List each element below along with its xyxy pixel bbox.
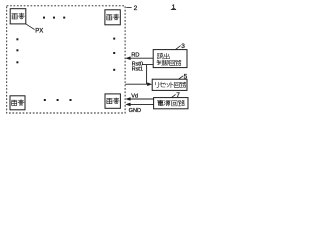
pixel array dashed box (2) — [7, 6, 125, 113]
ellipsis dots right column — [113, 38, 115, 40]
PX leader line — [26, 24, 35, 30]
RD wire — [129, 57, 154, 59]
svg-text:RD: RD — [131, 53, 139, 59]
svg-text:2: 2 — [134, 5, 138, 12]
reset line wire to pixel array — [125, 83, 149, 85]
Rst stub wire from box 3 — [142, 65, 153, 85]
GND wire — [129, 103, 154, 105]
pixel bottom-right 画素 box — [105, 94, 120, 108]
GND arrowhead — [125, 103, 130, 107]
pixel bottom-left 画素 box — [10, 96, 25, 110]
pixel top-right 画素 box — [105, 10, 120, 25]
ellipsis dots left column — [16, 38, 18, 40]
ellipsis dots bottom row — [44, 99, 46, 101]
leader for 7 — [172, 94, 176, 97]
power supply circuit box 7 電源回路 — [154, 98, 188, 109]
svg-text:PX: PX — [35, 29, 43, 35]
leader tick for 2 — [126, 7, 131, 9]
svg-text:Rst1: Rst1 — [132, 67, 143, 73]
leader for 5 — [179, 76, 183, 79]
pixel PX top-left 画素 box — [10, 9, 26, 24]
svg-text:GND: GND — [129, 108, 141, 114]
svg-text:3: 3 — [181, 43, 185, 50]
readout control circuit box 3 読出制御回路 — [153, 50, 187, 68]
ellipsis dots top row — [43, 17, 45, 19]
Vd wire — [129, 98, 154, 100]
svg-text:Vd: Vd — [131, 93, 138, 99]
RD arrowhead — [125, 56, 130, 60]
svg-text:5: 5 — [184, 73, 188, 80]
arrowhead into reset circuit — [147, 82, 152, 86]
Vd arrowhead — [125, 97, 130, 101]
svg-text:7: 7 — [176, 92, 180, 99]
reset circuit box 5 リセット回路 — [152, 79, 187, 90]
leader for 3 — [176, 46, 181, 50]
